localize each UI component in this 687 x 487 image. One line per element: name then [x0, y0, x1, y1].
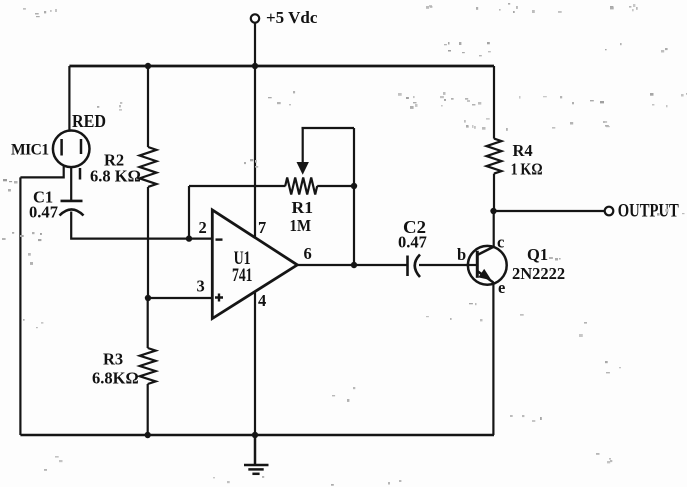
node pin3 / R2-R3 junction [145, 295, 151, 301]
node output / R1 junction [351, 262, 357, 268]
svg-text:b: b [457, 245, 466, 264]
Q1 pin label e [498, 278, 505, 297]
wire bottom rail [20, 434, 494, 436]
svg-text:+5 Vdc: +5 Vdc [266, 8, 318, 27]
pin number 3 [197, 276, 205, 295]
resistor R3 [140, 298, 156, 435]
OUTPUT terminal [605, 207, 614, 216]
node top rail / +5V junction [252, 63, 258, 69]
node collector / output junction [490, 208, 496, 214]
R2 label [104, 151, 124, 170]
wire Q1 collector [493, 211, 495, 247]
svg-text:MIC1: MIC1 [11, 142, 49, 159]
ground [244, 435, 269, 474]
pin number 6 [304, 244, 312, 263]
R3 label [103, 350, 123, 369]
svg-text:6.8KΩ: 6.8KΩ [92, 369, 139, 388]
wire pin 4 to ground rail [254, 292, 256, 436]
node R3 bottom junction [145, 432, 151, 438]
wire MIC1 to C1 [70, 167, 72, 202]
C2 value 0.47 [398, 233, 427, 252]
node R1 right terminal [351, 183, 357, 189]
resistor R4 [487, 66, 502, 211]
R4 label [513, 141, 533, 160]
R1 wiper arrow [297, 128, 309, 175]
pin number 2 [199, 218, 207, 237]
svg-text:Q1: Q1 [527, 245, 548, 264]
wire feedback vertical [188, 186, 190, 239]
R1 value 1M [290, 216, 312, 235]
node pin2 feedback junction [186, 235, 192, 241]
wire to OUTPUT terminal [494, 210, 605, 212]
svg-text:2N2222: 2N2222 [512, 264, 565, 283]
svg-text:c: c [497, 233, 504, 252]
wire C1 to pin 2 [71, 212, 212, 239]
C1 label [33, 188, 53, 207]
microphone MIC1 [53, 131, 90, 180]
wire pin 3 [148, 297, 212, 299]
svg-text:0.47: 0.47 [29, 203, 58, 222]
potentiometer R1 [285, 178, 353, 195]
U1 label [234, 249, 251, 269]
wire +5V stem [254, 23, 256, 66]
wire Q1 emitter [492, 282, 494, 435]
wire R1 top bracket [302, 127, 355, 129]
MIC1 label [11, 142, 49, 159]
svg-text:3: 3 [197, 276, 205, 295]
Q1 pin label c [497, 233, 504, 252]
pin number 4 [258, 291, 266, 310]
wire C2 to Q1 base [419, 264, 477, 266]
svg-text:2: 2 [199, 218, 207, 237]
svg-text:6.8 KΩ: 6.8 KΩ [90, 167, 141, 186]
Q1 label [527, 245, 548, 264]
pin number 7 [258, 218, 266, 237]
capacitor C2 [408, 255, 421, 278]
svg-text:RED: RED [72, 111, 106, 131]
wire MIC1 left terminal [20, 166, 63, 178]
svg-text:741: 741 [232, 266, 253, 286]
op-amp plus input sign [215, 294, 223, 302]
transistor Q1 2N2222 [466, 246, 507, 285]
wire feedback to R1 [189, 185, 286, 187]
wire op-amp output [297, 264, 406, 266]
wire top rail [69, 65, 494, 68]
svg-text:4: 4 [258, 291, 266, 310]
wire top rail down to MIC1 [68, 66, 70, 131]
op-amp minus input sign [216, 238, 223, 240]
svg-text:0.47: 0.47 [398, 233, 427, 252]
+5 Vdc label [266, 8, 318, 27]
node top rail / R2 junction [145, 63, 151, 69]
svg-text:6: 6 [304, 244, 312, 263]
svg-text:R3: R3 [103, 350, 123, 369]
R4 value 1 KΩ [511, 160, 543, 179]
op-amp U1 741 [212, 210, 297, 319]
svg-text:7: 7 [258, 218, 266, 237]
R3 value 6.8KΩ [92, 369, 139, 388]
R1 label [292, 198, 314, 217]
svg-text:1M: 1M [290, 216, 312, 235]
wire left rail [19, 177, 21, 435]
capacitor C1 [60, 201, 84, 216]
wire +5V to pin 7 [254, 66, 256, 237]
R2 value 6.8 KΩ [90, 167, 141, 186]
svg-text:OUTPUT: OUTPUT [618, 201, 680, 221]
C1 value 0.47 [29, 203, 58, 222]
Q1 pin label b [457, 245, 466, 264]
node ground junction [252, 432, 258, 438]
OUTPUT label [618, 201, 680, 221]
svg-text:R4: R4 [513, 141, 533, 160]
+5V terminal [251, 14, 259, 22]
svg-text:R1: R1 [292, 198, 314, 217]
C2 label [403, 217, 426, 237]
U1 value 741 [232, 266, 253, 286]
svg-text:1 KΩ: 1 KΩ [511, 160, 543, 179]
Q1 value 2N2222 [512, 264, 565, 283]
wire R1 right side down to output [353, 128, 355, 265]
resistor R2 [140, 66, 157, 298]
svg-text:e: e [498, 278, 505, 297]
RED label [72, 111, 106, 131]
